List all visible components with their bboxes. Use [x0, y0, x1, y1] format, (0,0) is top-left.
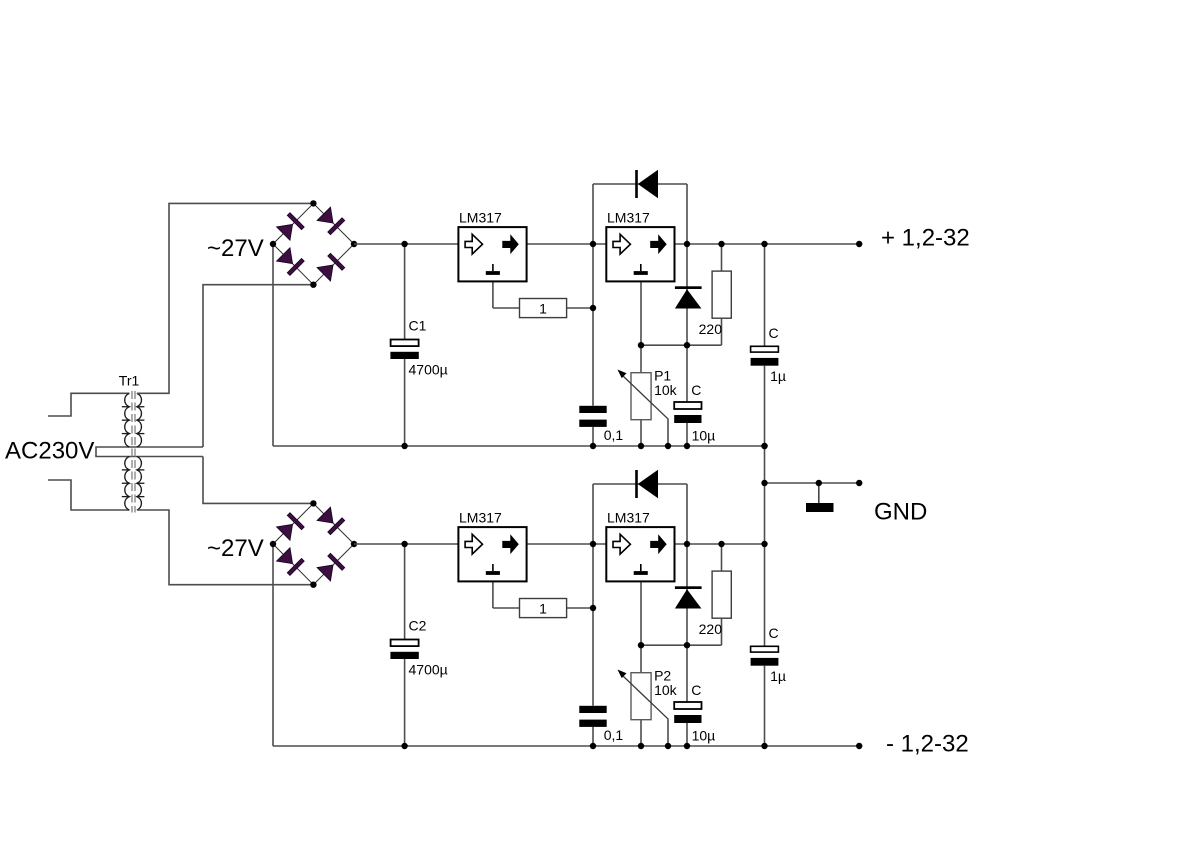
potentiometer P1 wiper arrowhead	[618, 370, 627, 379]
wire secondary1 top lead to bridge1 top	[137, 203, 314, 393]
capacitor 0,1 (2) top plate	[579, 706, 606, 713]
bridge rectifier B2 diamond	[273, 503, 354, 584]
bridge B1 diode upper-right	[317, 207, 345, 235]
op-amp-style regulator block U4 box	[606, 527, 674, 581]
svg-text:C: C	[769, 325, 779, 341]
wire regulator1 output to regulator2 input	[527, 543, 607, 545]
bridge B1 bottom node	[310, 282, 316, 288]
capacitor C2 top plate	[391, 640, 419, 647]
svg-text:4700µ: 4700µ	[409, 361, 448, 377]
svg-text:Tr1: Tr1	[119, 373, 140, 389]
U3 adjust-pin symbol	[492, 564, 494, 571]
transformer Tr1 primary winding 1 coil	[125, 393, 130, 447]
wire adjust pin of regulator2 down to pot	[640, 281, 642, 372]
wire bridge1 negative vertical	[272, 244, 274, 446]
bridge B2 left node	[270, 541, 276, 547]
wire 1u capacitor bottom lead	[764, 666, 766, 746]
capacitor 1u (1) top plate	[751, 346, 779, 352]
junction dot resistor-1 node	[590, 305, 596, 311]
svg-text:220: 220	[699, 321, 723, 337]
wire 1u capacitor top lead	[764, 544, 766, 646]
capacitor 0,1 (2) bottom plate	[579, 720, 606, 727]
transformer Tr1 centre tap leads	[96, 447, 203, 457]
feedback diode D2a (triangle)	[638, 470, 658, 498]
svg-text:0,1: 0,1	[604, 427, 624, 443]
protection diode D2b (triangle)	[675, 589, 702, 608]
bridge B2 diode lower-left	[276, 547, 304, 575]
wire 220 resistor top lead	[721, 544, 723, 571]
svg-text:C1: C1	[409, 318, 427, 334]
wire 10u capacitor top lead	[686, 645, 688, 702]
protection diode D1b (triangle)	[675, 289, 702, 308]
wire node vertical to 0,1 capacitor	[592, 244, 594, 406]
terminal dot GND	[856, 480, 862, 486]
transformer Tr1 primary winding 2 coil	[125, 457, 130, 511]
transformer Tr1 primary top lead	[48, 393, 129, 416]
wire 0,1 capacitor to rail	[592, 727, 594, 746]
wire pot bottom lead to rail	[640, 420, 642, 446]
svg-text:4700µ: 4700µ	[409, 661, 448, 677]
potentiometer P2 body	[631, 673, 651, 720]
U2 input arrow (open)	[613, 234, 630, 254]
capacitor 10u (1) top plate	[674, 402, 701, 409]
U1 output arrow (filled)	[502, 234, 519, 254]
wire feedback loop right vertical	[686, 484, 688, 544]
junction dots on adjust junction line	[638, 342, 644, 348]
potentiometer P2 wiper arrowhead	[618, 670, 627, 679]
bridge B2 right node	[351, 541, 357, 547]
transformer Tr1 core dashed lines	[131, 391, 133, 513]
svg-text:+ 1,2-32: + 1,2-32	[881, 225, 970, 252]
bridge B2 bottom node	[310, 582, 316, 588]
protection diode D1b (cathode bar)	[675, 286, 702, 289]
capacitor 10u (2) bottom plate	[674, 715, 701, 723]
wire 10u capacitor bottom lead	[686, 423, 688, 446]
junction dot resistor-1 node	[590, 605, 596, 611]
svg-text:10µ: 10µ	[692, 428, 716, 444]
bridge B2 diode lower-right	[317, 553, 345, 581]
potentiometer P1 body	[631, 373, 651, 420]
svg-text:GND: GND	[874, 498, 927, 525]
wire adjust pin of regulator2 down to pot	[640, 581, 642, 672]
potentiometer P1 wiper arrow line	[620, 373, 668, 419]
GND symbol bar	[806, 503, 834, 512]
bridge B1 top node	[310, 200, 316, 206]
wire 10u capacitor bottom lead	[686, 723, 688, 746]
junction dots on regulator output row	[401, 541, 407, 547]
wire regulator2 output line	[675, 543, 765, 545]
svg-text:C: C	[769, 625, 779, 641]
wire bridge output to regulator input	[354, 543, 458, 545]
wire bridge output to regulator input	[354, 243, 458, 245]
protection diode D2b (cathode bar)	[675, 586, 702, 589]
wire 10u capacitor top lead	[686, 345, 688, 402]
wire adjust pin to resistor 1	[493, 307, 520, 309]
svg-text:0,1: 0,1	[604, 727, 624, 743]
op-amp-style regulator block U2 box	[606, 227, 674, 281]
wire capacitor C1 bottom lead	[404, 359, 406, 446]
U1 adjust-pin symbol	[492, 264, 494, 271]
capacitor C2 bottom plate	[390, 652, 418, 659]
svg-text:C: C	[691, 682, 701, 698]
GND symbol tap	[818, 483, 820, 503]
U3 input arrow (open)	[465, 534, 482, 554]
wire capacitor C2 bottom lead	[404, 659, 406, 746]
capacitor 10u (1) bottom plate	[674, 415, 701, 423]
wire feedback loop left vertical	[592, 184, 594, 244]
terminal dot positive output	[856, 241, 862, 247]
wire 0,1 capacitor to rail	[592, 427, 594, 446]
svg-text:AC230V: AC230V	[5, 437, 94, 464]
svg-text:1: 1	[539, 600, 547, 616]
junction dots on adjust junction line	[638, 642, 644, 648]
wire 220 resistor bottom lead	[721, 618, 723, 645]
potentiometer P2 wiper arrow line	[620, 673, 668, 719]
wire junction line under regulator2	[641, 644, 722, 646]
wire pot bottom lead to rail	[640, 720, 642, 746]
svg-text:1µ: 1µ	[770, 668, 786, 684]
junction dot GND tap	[816, 480, 822, 486]
wire 220 resistor bottom lead	[721, 318, 723, 345]
wire pot wiper to rail	[667, 419, 669, 446]
wire 220 resistor top lead	[721, 244, 723, 271]
capacitor 10u (2) top plate	[674, 702, 701, 709]
resistor 220 (R4) box	[712, 571, 731, 618]
bridge B2 diode upper-right	[317, 507, 345, 535]
wire shunt diode vertical	[686, 244, 688, 345]
resistor 220 (R3) box	[712, 271, 731, 318]
wire capacitor C2 top lead	[404, 544, 406, 640]
wire feedback loop right vertical	[686, 184, 688, 244]
transformer Tr1 secondary winding 2 coil	[137, 457, 142, 511]
bridge B1 diode lower-right	[317, 253, 345, 281]
svg-text:- 1,2-32: - 1,2-32	[886, 731, 969, 758]
svg-text:10µ: 10µ	[692, 728, 716, 744]
capacitor 0,1 (1) top plate	[579, 406, 606, 413]
feedback diode D1a (triangle)	[638, 170, 658, 198]
wire secondary2 bottom lead to bridge2 bottom	[137, 510, 314, 585]
wire capacitor C1 top lead	[404, 244, 406, 340]
bridge B2 top node	[310, 500, 316, 506]
bridge B1 diode upper-left	[276, 213, 304, 241]
wire regulator2 output line	[675, 243, 860, 245]
op-amp-style regulator block U1 box	[458, 227, 526, 281]
transformer Tr1 secondary winding 1 coil	[137, 393, 142, 447]
capacitor 1u (2) bottom plate	[751, 658, 779, 666]
svg-text:LM317: LM317	[607, 510, 650, 526]
feedback diode D1a (cathode bar)	[635, 170, 638, 198]
svg-text:C2: C2	[409, 618, 427, 634]
svg-text:1: 1	[539, 300, 547, 316]
wire GND stub	[765, 482, 860, 484]
svg-text:10k: 10k	[654, 682, 678, 698]
wire feedback loop top horizontal	[593, 483, 687, 485]
junction dot mid vertical at top rail	[761, 443, 767, 449]
U2 adjust-pin symbol	[640, 264, 642, 271]
U2 output arrow (filled)	[650, 234, 667, 254]
U4 input arrow (open)	[613, 534, 630, 554]
wire junction line under regulator2	[641, 344, 722, 346]
wire regulator1 output to regulator2 input	[527, 243, 607, 245]
svg-text:10k: 10k	[654, 382, 678, 398]
wire resistor 1 to node	[567, 607, 593, 609]
junction dots on lower rail	[401, 743, 407, 749]
capacitor C1 top plate	[391, 340, 419, 347]
svg-text:LM317: LM317	[607, 210, 650, 226]
bridge B1 diode lower-left	[276, 247, 304, 275]
U3 output arrow (filled)	[502, 534, 519, 554]
junction dots on regulator output row	[401, 241, 407, 247]
resistor 1 (R1) box	[520, 299, 567, 318]
wire pot wiper to rail	[667, 719, 669, 746]
wire 1u capacitor top lead	[764, 244, 766, 346]
op-amp-style regulator block U3 box	[458, 527, 526, 581]
terminal dot negative output	[856, 743, 862, 749]
wire resistor 1 to node	[567, 307, 593, 309]
resistor 1 (R2) box	[520, 599, 567, 618]
wire node vertical to 0,1 capacitor	[592, 544, 594, 706]
bridge B2 diode upper-left	[276, 513, 304, 541]
wire shunt diode vertical	[686, 544, 688, 645]
wire feedback loop top horizontal	[593, 183, 687, 185]
svg-text:LM317: LM317	[459, 510, 502, 526]
U4 output arrow (filled)	[650, 534, 667, 554]
feedback diode D2a (cathode bar)	[635, 470, 638, 498]
bridge B1 left node	[270, 241, 276, 247]
capacitor 1u (1) bottom plate	[751, 358, 779, 366]
svg-text:~27V: ~27V	[207, 235, 264, 262]
wire bridge2 negative vertical	[272, 544, 274, 746]
svg-text:220: 220	[699, 621, 723, 637]
capacitor C1 bottom plate	[390, 352, 418, 359]
wire secondary1 bottom lead to bridge1 bottom	[203, 285, 313, 447]
wire mid vertical rail-to-GND-to-bottom-row	[764, 446, 766, 544]
svg-text:LM317: LM317	[459, 210, 502, 226]
svg-text:~27V: ~27V	[207, 535, 264, 562]
transformer Tr1 primary bottom lead	[48, 480, 129, 510]
wire secondary2 top lead to bridge2 top	[203, 457, 313, 504]
wire feedback loop left vertical	[592, 484, 594, 544]
bridge B1 right node	[351, 241, 357, 247]
svg-text:1µ: 1µ	[770, 368, 786, 384]
svg-text:C: C	[691, 382, 701, 398]
wire top section lower rail	[273, 445, 765, 447]
wire adjust pin to resistor 1	[493, 607, 520, 609]
wire bottom section lower rail	[273, 745, 859, 747]
capacitor 1u (2) top plate	[751, 646, 779, 652]
wire 1u capacitor bottom lead	[764, 366, 766, 446]
junction dots on lower rail	[401, 443, 407, 449]
capacitor 0,1 (1) bottom plate	[579, 420, 606, 427]
bridge rectifier B1 diamond	[273, 203, 354, 284]
wire adjust pin of regulator1 down	[492, 281, 494, 308]
wire adjust pin of regulator1 down	[492, 581, 494, 608]
junction dot mid vertical at GND line	[761, 480, 767, 486]
U1 input arrow (open)	[465, 234, 482, 254]
U4 adjust-pin symbol	[640, 564, 642, 571]
